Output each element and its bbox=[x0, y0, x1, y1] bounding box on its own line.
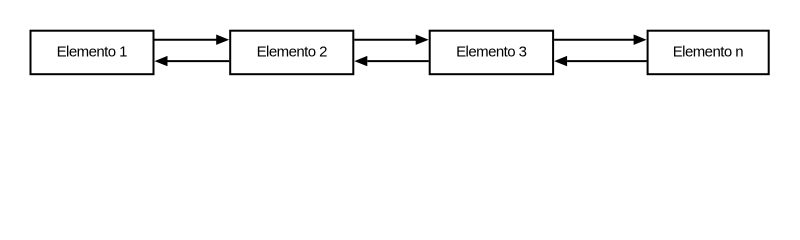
svg-text:Elemento 1: Elemento 1 bbox=[57, 43, 128, 60]
svg-text:Elemento 3: Elemento 3 bbox=[456, 43, 527, 60]
svg-text:Elemento 2: Elemento 2 bbox=[257, 43, 328, 60]
svg-text:Elemento n: Elemento n bbox=[673, 43, 744, 60]
